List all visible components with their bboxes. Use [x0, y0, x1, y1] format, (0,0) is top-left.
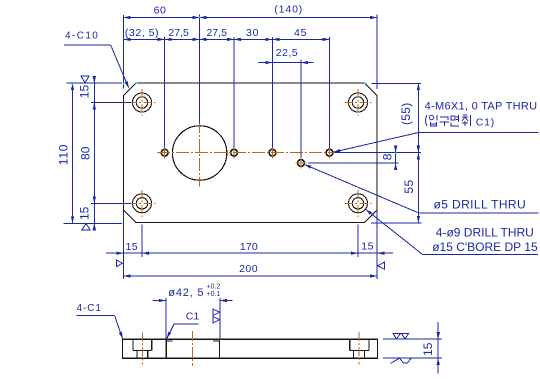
svg-text:15: 15 [77, 206, 91, 220]
svg-text:200: 200 [239, 263, 258, 275]
svg-text:27,5: 27,5 [206, 27, 227, 39]
svg-text:15: 15 [125, 241, 138, 253]
svg-text:4-C1: 4-C1 [77, 303, 102, 314]
svg-text:55: 55 [402, 179, 416, 193]
svg-text:(140): (140) [274, 3, 303, 15]
svg-text:15: 15 [421, 342, 435, 356]
svg-text:170: 170 [240, 241, 258, 253]
svg-text:(55): (55) [399, 102, 413, 125]
svg-text:60: 60 [154, 4, 167, 16]
svg-text:27,5: 27,5 [168, 27, 189, 39]
svg-text:ø5 DRILL THRU: ø5 DRILL THRU [434, 198, 527, 212]
svg-text:4-ø9 DRILL THRU: 4-ø9 DRILL THRU [436, 226, 534, 240]
svg-text:15: 15 [77, 85, 91, 99]
svg-text:ø42, 5: ø42, 5 [168, 287, 204, 299]
svg-text:22,5: 22,5 [276, 47, 298, 59]
svg-text:4-C10: 4-C10 [65, 31, 99, 42]
svg-text:15: 15 [361, 241, 374, 253]
svg-text:C1: C1 [186, 311, 200, 323]
svg-text:4-M6X1, 0 TAP THRU: 4-M6X1, 0 TAP THRU [425, 101, 538, 113]
svg-text:+0.2: +0.2 [207, 283, 221, 290]
svg-text:110: 110 [57, 144, 71, 166]
svg-text:+0.1: +0.1 [207, 291, 221, 298]
svg-text:80: 80 [78, 146, 92, 160]
svg-text:ø15 C'BORE DP 15: ø15 C'BORE DP 15 [432, 240, 538, 254]
svg-text:45: 45 [294, 27, 307, 39]
svg-text:8: 8 [381, 153, 395, 160]
svg-text:(32, 5): (32, 5) [125, 27, 159, 39]
svg-text:30: 30 [246, 27, 259, 39]
svg-text:C1): C1) [476, 116, 495, 128]
